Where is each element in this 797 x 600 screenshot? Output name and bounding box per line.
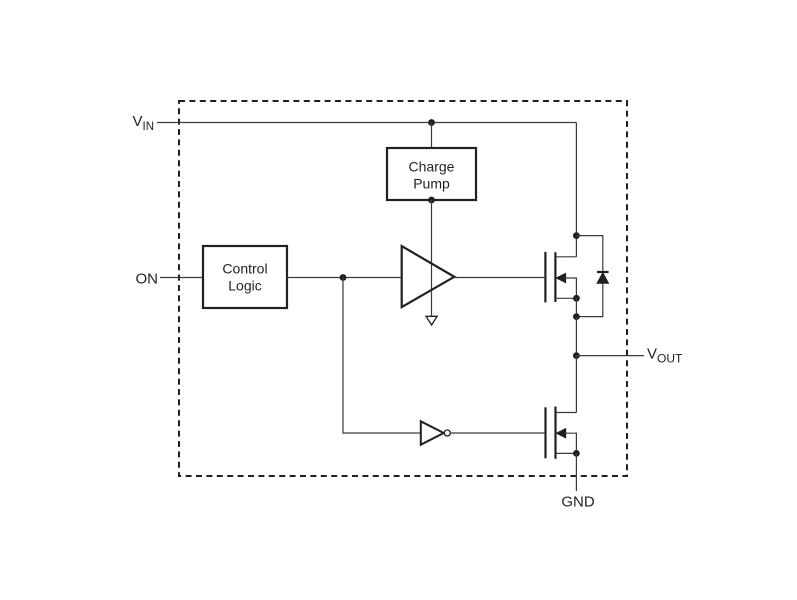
wire ON input to control logic <box>160 277 203 279</box>
IC boundary dashed box <box>179 101 627 476</box>
wire output rail down to pulldown FET drain <box>575 356 577 413</box>
node ON label <box>136 271 159 288</box>
junction dot VOUT tap <box>573 352 580 359</box>
pulldown FET source stub <box>556 452 577 454</box>
pass FET source stub <box>555 297 576 299</box>
pulldown FET body arrow <box>557 429 577 454</box>
svg-text:GND: GND <box>561 494 595 511</box>
node VOUT label <box>647 345 683 365</box>
pulldown FET drain stub <box>556 412 577 414</box>
svg-text:Pump: Pump <box>413 175 450 191</box>
junction dot pass FET source/body <box>573 295 580 302</box>
body diode branch wires <box>576 236 602 317</box>
svg-text:Logic: Logic <box>228 277 261 293</box>
wire source node down to diode node <box>575 298 577 316</box>
svg-text:V: V <box>133 113 143 130</box>
pass FET body arrow <box>556 273 576 298</box>
svg-text:V: V <box>647 345 657 362</box>
wire GND lead <box>575 453 577 491</box>
pass FET channel bar <box>554 252 556 302</box>
wire VIN rail (VIN port to top-right corner) <box>157 122 576 124</box>
pass FET gate bar <box>544 252 546 303</box>
pulldown FET channel bar <box>554 407 556 459</box>
charge pump block <box>387 148 476 200</box>
inverter triangle <box>421 421 444 444</box>
svg-text:IN: IN <box>143 121 155 133</box>
body diode cathode bar <box>597 271 609 273</box>
junction dot driver/inverter branch <box>340 274 347 281</box>
pass FET drain stub <box>555 256 576 258</box>
control logic block <box>203 246 287 308</box>
wire control logic output to driver input <box>287 277 402 279</box>
wire inverter output to pulldown FET gate <box>450 432 544 434</box>
svg-text:Control: Control <box>222 260 267 276</box>
junction dot charge pump output <box>428 197 435 204</box>
ground reference open arrow below driver <box>426 316 437 325</box>
node VIN label <box>133 113 155 133</box>
svg-text:ON: ON <box>136 271 159 288</box>
wire driver output to pass FET gate <box>454 277 544 279</box>
junction dot diode bottom / output rail <box>573 313 580 320</box>
wire branch down to inverter <box>343 278 421 434</box>
wire charge pump output through gate driver <box>431 200 433 316</box>
svg-text:OUT: OUT <box>657 352 683 366</box>
node GND label <box>561 494 595 511</box>
inverter bubble <box>444 430 450 436</box>
junction dot pulldown FET source/body <box>573 450 580 457</box>
body diode triangle <box>597 273 608 284</box>
wire VOUT tap to port <box>576 355 644 357</box>
wire output rail down to VOUT tap <box>575 317 577 356</box>
svg-text:Charge: Charge <box>409 158 455 174</box>
wire VIN tap down to charge pump <box>431 123 433 149</box>
wire VIN rail vertical drop to pass FET <box>575 123 577 257</box>
gate driver buffer <box>402 246 455 307</box>
pulldown FET gate bar <box>544 407 546 458</box>
junction dot VIN / charge-pump tap <box>428 119 435 126</box>
junction dot VIN rail / diode top <box>573 232 580 239</box>
